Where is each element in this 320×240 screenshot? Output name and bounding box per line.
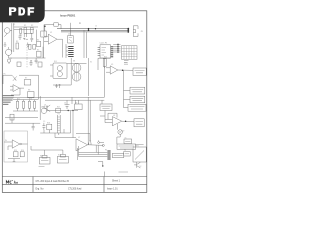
- relay matrix K1: [122, 46, 138, 60]
- svg-text:RL3: RL3: [58, 155, 61, 157]
- title block: [2, 177, 147, 193]
- wire U1 output: [57, 39, 63, 57]
- svg-text:R16: R16: [21, 150, 24, 152]
- resistor R15: [13, 152, 18, 157]
- wire top-left horizontals: [14, 27, 38, 30]
- label box LB4: [128, 104, 146, 111]
- label box LB1: [133, 68, 146, 75]
- node mid circle: [7, 59, 10, 64]
- wire line-in run: [47, 110, 78, 112]
- svg-text:R9: R9: [75, 103, 77, 105]
- svg-text:R5: R5: [37, 49, 39, 51]
- node header dots: [117, 44, 119, 53]
- potentiometer VR1: [3, 75, 39, 81]
- resistor R5: [37, 51, 41, 57]
- ic U4: [100, 45, 111, 58]
- ribbon header P3: [57, 115, 60, 133]
- relay RL3: [57, 154, 68, 163]
- node U8 out: [125, 121, 127, 123]
- resistor R11: [16, 101, 18, 108]
- capacitor C2: [35, 58, 38, 64]
- svg-text:RL2: RL2: [40, 156, 43, 158]
- transistor Q1: [44, 105, 50, 112]
- resistor R2: [31, 27, 33, 33]
- capacitor C7: [23, 33, 28, 40]
- resistor R8: [28, 92, 34, 98]
- connector P2 pins: [68, 47, 73, 57]
- net stub left: [98, 142, 104, 144]
- note text input-balance: [3, 96, 14, 104]
- svg-text:P1: P1: [79, 23, 81, 25]
- ground input: [4, 42, 7, 46]
- capacitor C5: [42, 123, 45, 130]
- svg-text:T2: T2: [124, 150, 126, 152]
- svg-text:RL1: RL1: [54, 61, 57, 63]
- svg-text:C1: C1: [13, 24, 15, 26]
- wire mid drops: [72, 97, 79, 104]
- wire U9 leads: [10, 86, 24, 90]
- op-amp U1: [48, 34, 57, 44]
- svg-text:Conn P1: Conn P1: [100, 43, 109, 45]
- wire U6 bottom: [8, 159, 20, 162]
- svg-text:K1: K1: [61, 66, 63, 68]
- svg-text:R7: R7: [25, 78, 27, 80]
- capacitor C6: [89, 143, 91, 145]
- svg-text:CTL 200 Input & Gain Brd Rev B: CTL 200 Input & Gain Brd Rev B: [36, 180, 70, 183]
- page background: [0, 0, 149, 198]
- transistor Q2: [134, 162, 140, 168]
- wire title tick: [103, 172, 105, 177]
- resistor R18: [47, 124, 52, 130]
- wire rail bottom: [13, 100, 38, 111]
- wire U8 output: [122, 120, 134, 122]
- resistor R17: [56, 108, 61, 112]
- pin row U4: [111, 47, 114, 57]
- wire R10 top: [98, 58, 111, 70]
- wire U6 leads: [4, 142, 28, 150]
- svg-text:P4: P4: [105, 149, 107, 151]
- wire net tick bottomleft: [39, 166, 45, 168]
- label box LB2: [130, 87, 145, 94]
- trimmer RV2: [118, 124, 123, 137]
- node U6 out: [20, 143, 22, 145]
- wire relay feeds: [31, 146, 78, 160]
- capacitor C1: [19, 34, 22, 40]
- svg-text:R1: R1: [24, 25, 26, 27]
- wire lower-left runs: [5, 96, 40, 123]
- svg-text:M1: M1: [73, 61, 75, 63]
- resistor R16: [20, 152, 24, 157]
- wire U5 io: [106, 68, 133, 72]
- op-amp U5: [110, 66, 118, 74]
- svg-text:R18: R18: [47, 122, 50, 124]
- resistor R20: [33, 45, 36, 50]
- svg-text:U7: U7: [78, 137, 80, 139]
- wire input pair: [12, 23, 14, 52]
- svg-text:C8: C8: [30, 60, 32, 62]
- svg-text:R13: R13: [29, 98, 32, 100]
- resistor R9: [75, 104, 83, 110]
- jack J5: [41, 107, 46, 114]
- label box LB5: [112, 153, 123, 157]
- resistor R6: [54, 23, 58, 26]
- capacitor C10: [32, 123, 35, 130]
- op-amp U8: [112, 117, 121, 126]
- wire bus 3-run: [57, 29, 128, 32]
- wire mid risers: [71, 111, 74, 138]
- wire bus end tie: [127, 28, 129, 33]
- wire U7 feedback: [76, 134, 90, 142]
- svg-text:R11: R11: [17, 98, 20, 100]
- pdf badge text: [9, 7, 34, 15]
- wire U1 feedback: [44, 25, 61, 37]
- wire long mid bus: [13, 97, 104, 100]
- svg-text:Issue PB201: Issue PB201: [60, 13, 76, 17]
- svg-text:U5: U5: [111, 64, 113, 66]
- capacitor C3: [55, 84, 61, 88]
- components row lower-left: [13, 100, 38, 111]
- svg-text:Sheet 1: Sheet 1: [112, 180, 121, 183]
- connector XLR J3: [133, 26, 138, 37]
- capacitor C4: [65, 100, 70, 109]
- label box LB7: [124, 152, 131, 156]
- svg-text:U2: U2: [68, 34, 70, 36]
- pcb outline lower-left: [4, 131, 28, 162]
- pin row U4 left: [98, 48, 100, 56]
- svg-text:R4: R4: [37, 40, 39, 42]
- relay RL1: [53, 63, 67, 79]
- wire U8 feedback: [108, 113, 117, 119]
- svg-text:C5: C5: [43, 121, 45, 123]
- relay RL2: [39, 155, 50, 164]
- wire dashed stub: [26, 59, 28, 68]
- resistor R13: [28, 101, 30, 108]
- ref designator speckle: [3, 23, 141, 168]
- wire U1 inputs: [44, 36, 48, 41]
- wire bus-to-U7 drops: [88, 97, 102, 144]
- svg-text:T1: T1: [125, 137, 127, 139]
- resistor R7: [24, 80, 31, 85]
- wire lower-left run: [9, 30, 46, 58]
- connector P4 pins: [107, 151, 110, 159]
- wire mid-left verticals: [3, 75, 39, 99]
- svg-text:J2: J2: [95, 25, 97, 27]
- resistor R23: [10, 114, 14, 120]
- wire right riser: [44, 27, 45, 58]
- svg-text:R8: R8: [28, 90, 30, 92]
- svg-text:K2: K2: [10, 58, 12, 60]
- op-amp U9: [13, 85, 19, 92]
- wire into U7: [55, 133, 76, 138]
- label box LB3: [130, 96, 145, 103]
- pdf badge: [0, 0, 45, 22]
- op-amp U7: [76, 139, 88, 151]
- wire U2 stem: [69, 23, 71, 36]
- motor-pot M1: [72, 64, 81, 82]
- op-amp U6: [12, 140, 20, 148]
- node bus junctions: [88, 28, 130, 33]
- wire P2 feeds: [66, 44, 68, 58]
- title text row1: [36, 180, 121, 183]
- svg-text:R15: R15: [14, 150, 17, 152]
- svg-text:R3: R3: [16, 41, 18, 43]
- node U5 out: [122, 70, 124, 72]
- svg-text:P5: P5: [3, 73, 5, 75]
- jack J1: [4, 28, 12, 37]
- svg-text:V1: V1: [90, 62, 92, 64]
- node out pad: [102, 144, 104, 146]
- label box LB10: [117, 144, 136, 149]
- wire M1 risers: [53, 58, 89, 96]
- wire meter drop: [117, 137, 120, 144]
- drawing frame: [2, 11, 147, 193]
- logo MC2 Audio: [6, 180, 17, 183]
- wire R bottoms: [25, 33, 33, 42]
- wire RL1 leads: [50, 63, 87, 76]
- label box LB9: [134, 119, 144, 127]
- svg-text:1: 1: [100, 56, 101, 58]
- wire rail top: [13, 99, 38, 101]
- svg-text:R17: R17: [57, 106, 60, 108]
- svg-text:R10: R10: [104, 57, 107, 59]
- note text small: [124, 61, 129, 65]
- resistor R14: [33, 101, 35, 108]
- svg-text:U8: U8: [113, 115, 115, 117]
- svg-text:Drg. No: Drg. No: [36, 187, 45, 190]
- node dots line: [68, 110, 74, 111]
- svg-text:P3: P3: [58, 113, 60, 115]
- svg-text:Q1: Q1: [44, 104, 46, 106]
- wire header feeds: [113, 44, 120, 52]
- resistor R19: [17, 62, 21, 66]
- resistor R4: [37, 41, 41, 46]
- resistor R21: [38, 62, 42, 67]
- svg-text:C2: C2: [20, 34, 22, 36]
- svg-text:C6: C6: [89, 141, 91, 143]
- svg-text:Q2: Q2: [139, 166, 141, 168]
- wire U7 output: [88, 145, 103, 155]
- capacitor C9: [20, 29, 22, 34]
- resistor R10: [103, 59, 106, 67]
- graph box meter: [133, 145, 146, 162]
- wire bus drops: [84, 30, 87, 58]
- capacitor C8: [30, 60, 33, 66]
- svg-text:U1: U1: [50, 32, 52, 34]
- wire U8 feed: [100, 111, 112, 123]
- wire dotted drop: [26, 47, 28, 58]
- svg-text:RV2: RV2: [121, 130, 124, 132]
- resistor R1: [24, 27, 27, 33]
- svg-text:LINE IN: LINE IN: [41, 107, 49, 109]
- wire lower-mid rail: [40, 129, 70, 135]
- label box LB6: [124, 139, 132, 144]
- resistor R24: [41, 31, 47, 37]
- label box LB8: [100, 104, 112, 111]
- svg-text:CTL200.Kwd: CTL200.Kwd: [68, 188, 82, 190]
- node badge-corner junction: [44, 25, 46, 27]
- svg-text:C4: C4: [64, 103, 66, 105]
- wire mid drop: [104, 58, 106, 97]
- svg-text:R2: R2: [31, 25, 33, 27]
- resistor R3: [16, 43, 19, 49]
- wire triple to header: [79, 146, 108, 157]
- svg-text:Issue 1.01: Issue 1.01: [107, 188, 118, 190]
- jack J2: [6, 47, 12, 55]
- title text row2: [36, 187, 119, 190]
- wire right drop: [124, 70, 131, 107]
- resistor R22: [29, 44, 31, 49]
- resistor R12: [22, 101, 24, 108]
- analog switch U2: [68, 36, 74, 43]
- ground: [26, 43, 29, 47]
- wire elbow gnd: [98, 162, 103, 167]
- note text above title: [119, 171, 129, 173]
- node elbow: [102, 165, 103, 166]
